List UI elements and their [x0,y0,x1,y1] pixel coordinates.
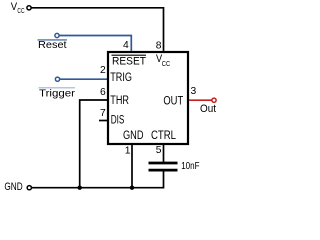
svg-text:Out: Out [200,103,216,115]
svg-text:TRIG: TRIG [110,72,132,84]
svg-text:Trigger: Trigger [39,89,76,100]
wire pin 3 OUT [189,99,212,101]
wire pin 1 GND down [131,144,133,188]
wire pin 6 THR to ground [80,100,108,188]
svg-text:CC: CC [17,6,25,15]
overline Trigger [39,87,76,89]
terminal Reset [55,33,59,37]
pin label VCC inside [156,53,170,68]
svg-text:1: 1 [125,146,131,157]
IC U1 555 timer body [108,52,188,144]
node Reset label [38,40,67,51]
capacitor C1 plates [149,163,178,170]
svg-text:DIS: DIS [111,114,125,126]
svg-text:8: 8 [156,40,162,51]
wire Trigger to pin 2 [60,78,108,80]
wire pin 5 CTRL to capacitor [163,144,165,162]
wire pin 7 DIS stub [99,120,108,122]
svg-text:3: 3 [191,86,197,97]
svg-text:4: 4 [123,40,129,51]
terminal VCC [27,6,31,10]
terminal Trigger [55,77,59,81]
svg-text:5: 5 [156,145,162,156]
terminal Out [212,98,216,102]
svg-text:THR: THR [110,95,129,107]
svg-text:RESET: RESET [112,55,146,67]
junction THR ground [78,186,82,190]
wire capacitor to ground rail [32,171,164,188]
svg-text:GND: GND [123,130,144,142]
wire Reset to pin 4 [59,36,131,51]
junction pin 1 ground [130,186,134,190]
svg-text:OUT: OUT [163,95,183,107]
svg-text:Reset: Reset [38,40,67,51]
node Trigger label [39,89,76,100]
svg-text:2: 2 [100,65,106,76]
terminal GND [27,186,31,190]
svg-text:6: 6 [100,87,106,98]
svg-text:GND: GND [4,181,22,193]
node VCC label [11,1,25,15]
overline RESET [112,54,147,56]
wire VCC to pin 8 [31,8,163,51]
overline Reset [38,39,68,41]
svg-text:CTRL: CTRL [151,130,177,142]
svg-text:CC: CC [162,61,171,68]
svg-text:10nF: 10nF [181,161,199,172]
svg-text:7: 7 [100,108,106,119]
